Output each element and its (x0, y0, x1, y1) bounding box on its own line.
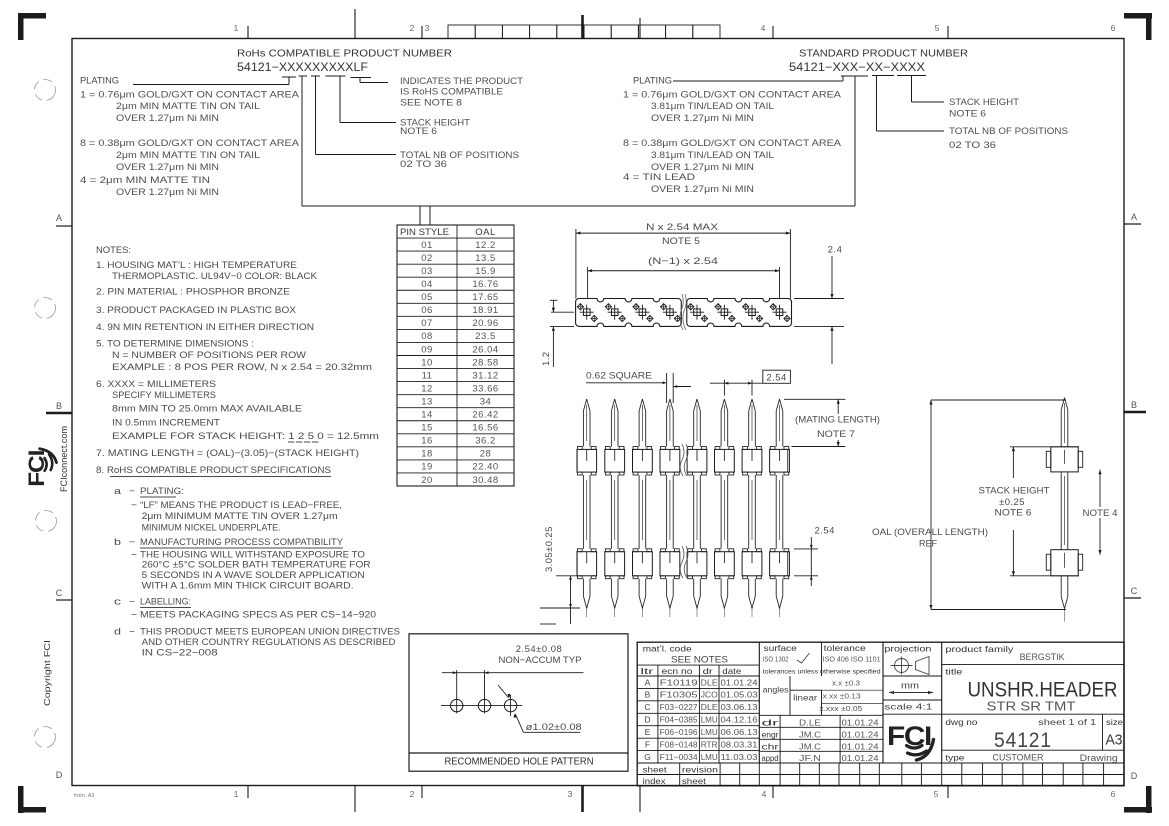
svg-text:15.9: 15.9 (475, 266, 496, 277)
svg-text:DLE: DLE (701, 677, 718, 687)
svg-text:2μm MIN MATTE TIN ON TAIL: 2μm MIN MATTE TIN ON TAIL (116, 150, 260, 161)
svg-text:C: C (1131, 586, 1138, 596)
svg-text:28: 28 (480, 449, 492, 460)
svg-text:1. HOUSING MAT’L : HIGH T: 1. HOUSING MAT’L : HIGH TEMPERATURE (96, 260, 297, 271)
svg-text:engr: engr (762, 730, 779, 739)
svg-text:1: 1 (234, 23, 239, 33)
svg-text:UNSHR.HEADER: UNSHR.HEADER (968, 679, 1118, 702)
svg-text:A: A (645, 677, 651, 687)
svg-text:A: A (1131, 212, 1137, 222)
svg-text:title: title (945, 667, 962, 677)
svg-text:REF: REF (919, 539, 937, 550)
svg-text:2. PIN MATERIAL : PHOSPHOR: 2. PIN MATERIAL : PHOSPHOR BRONZE (96, 287, 290, 298)
svg-text:1 = 0.76μm GOLD/GXT ON CO: 1 = 0.76μm GOLD/GXT ON CONTACT AREA (80, 90, 300, 101)
svg-text:TOTAL NB OF POSITIONS: TOTAL NB OF POSITIONS (949, 126, 1068, 137)
svg-text:NOTE 6: NOTE 6 (949, 109, 986, 120)
svg-text:17.65: 17.65 (472, 292, 498, 303)
svg-text:F08−0148: F08−0148 (660, 739, 698, 749)
svg-text:5. TO DETERMINE DIMENSIONS: 5. TO DETERMINE DIMENSIONS : (96, 339, 254, 350)
svg-text:dr: dr (703, 666, 713, 676)
svg-text:x.xx ±0.13: x.xx ±0.13 (823, 694, 861, 701)
svg-text:11: 11 (422, 370, 433, 381)
svg-text:±0.25: ±0.25 (999, 497, 1025, 508)
svg-text:STR SR TMT: STR SR TMT (987, 700, 1076, 714)
svg-text:01.05.03: 01.05.03 (721, 690, 758, 700)
svg-text:LMU: LMU (701, 727, 718, 737)
svg-text:5: 5 (934, 789, 939, 799)
svg-text:tolerances unless otherwise: tolerances unless otherwise specified (763, 669, 881, 676)
svg-text:ø1.02±0.08: ø1.02±0.08 (526, 722, 582, 733)
svg-text:26.04: 26.04 (472, 344, 498, 355)
svg-text:4: 4 (762, 789, 767, 799)
svg-text:01.01.24: 01.01.24 (842, 753, 879, 763)
svg-text:JM.C: JM.C (799, 729, 821, 739)
svg-text:THIS PRODUCT MEETS EUROPEAN: THIS PRODUCT MEETS EUROPEAN UNION DIRECT… (140, 627, 400, 638)
svg-text:RTR: RTR (701, 739, 718, 749)
svg-text:EXAMPLE FOR STACK HEIGHT: 1 2: EXAMPLE FOR STACK HEIGHT: 1 2 5 0 = 12.5… (112, 431, 379, 442)
svg-text:54121−XXX−XX−XXXX: 54121−XXX−XX−XXXX (789, 62, 925, 74)
svg-text:NON−ACCUM TYP: NON−ACCUM TYP (499, 655, 582, 666)
svg-text:x.xxx ±0.05: x.xxx ±0.05 (819, 706, 862, 713)
svg-text:15: 15 (421, 423, 433, 434)
svg-text:6. XXXX = MILLIMETERS: 6. XXXX = MILLIMETERS (96, 379, 216, 390)
svg-text:A: A (56, 213, 62, 223)
svg-text:D: D (644, 715, 650, 725)
svg-text:C: C (56, 588, 63, 598)
svg-text:8mm MIN TO 25.0mm MAX AVA: 8mm MIN TO 25.0mm MAX AVAILABLE (112, 404, 302, 415)
svg-text:NOTE 4: NOTE 4 (1083, 508, 1118, 519)
svg-text:ecn no: ecn no (662, 666, 693, 676)
svg-text:JF.N: JF.N (799, 753, 821, 763)
svg-text:OVER 1.27μm Ni MIN: OVER 1.27μm Ni MIN (651, 184, 754, 195)
svg-text:(N−1) x 2.54: (N−1) x 2.54 (648, 256, 718, 267)
svg-text:54121: 54121 (994, 729, 1052, 752)
svg-text:angles: angles (763, 685, 789, 695)
svg-text:A3: A3 (1106, 732, 1123, 749)
svg-text:01.01.24: 01.01.24 (842, 729, 879, 739)
svg-text:04.12.16: 04.12.16 (721, 715, 758, 725)
svg-text:2.54: 2.54 (814, 526, 835, 537)
svg-text:−: − (129, 537, 135, 548)
svg-text:scale 4:1: scale 4:1 (884, 702, 932, 712)
svg-text:PIN STYLE: PIN STYLE (400, 227, 449, 238)
svg-text:3: 3 (568, 789, 573, 799)
svg-text:14: 14 (421, 410, 433, 421)
svg-text:18.91: 18.91 (472, 305, 498, 316)
svg-text:−: − (129, 486, 135, 497)
svg-text:05: 05 (421, 292, 433, 303)
svg-text:2: 2 (410, 789, 415, 799)
svg-text:11.03.03: 11.03.03 (721, 752, 758, 762)
svg-text:INDICATES THE PRODUCT: INDICATES THE PRODUCT (400, 76, 523, 87)
svg-text:8. RoHS COMPATIBLE PRODUCT: 8. RoHS COMPATIBLE PRODUCT SPECIFICATION… (96, 465, 331, 476)
svg-text:31.12: 31.12 (472, 370, 498, 381)
svg-text:20.96: 20.96 (472, 318, 498, 329)
svg-text:2.4: 2.4 (828, 245, 843, 256)
svg-text:RECOMMENDED HOLE PATTERN: RECOMMENDED HOLE PATTERN (445, 756, 594, 768)
svg-text:b: b (114, 537, 121, 548)
svg-text:N = NUMBER OF POSITIONS P: N = NUMBER OF POSITIONS PER ROW (112, 350, 306, 361)
svg-text:01.01.24: 01.01.24 (842, 741, 879, 751)
svg-text:MANUFACTURING PROCESS COMPAT: MANUFACTURING PROCESS COMPATIBILITY (140, 537, 344, 548)
svg-text:19: 19 (421, 462, 433, 473)
svg-text:LMU: LMU (701, 752, 718, 762)
svg-text:sheet: sheet (682, 776, 707, 786)
svg-text:1.2: 1.2 (541, 351, 552, 366)
svg-text:NOTES:: NOTES: (96, 245, 131, 256)
svg-text:16: 16 (421, 436, 433, 447)
svg-text:F10305: F10305 (660, 690, 698, 700)
svg-text:D.LE: D.LE (799, 717, 821, 727)
svg-text:12: 12 (421, 383, 433, 394)
svg-text:23.5: 23.5 (475, 331, 496, 342)
svg-text:ltr: ltr (641, 666, 654, 676)
svg-text:22.40: 22.40 (472, 462, 498, 473)
svg-text:Copyright FCI: Copyright FCI (42, 640, 52, 706)
svg-text:03: 03 (421, 266, 433, 277)
svg-text:3.05±0.25: 3.05±0.25 (544, 526, 555, 572)
svg-text:PLATING: PLATING (633, 76, 672, 87)
svg-text:ISO 406 ISO 1101: ISO 406 ISO 1101 (823, 657, 881, 664)
svg-text:2μm MINIMUM MATTE TIN OVER: 2μm MINIMUM MATTE TIN OVER 1.27μm (142, 511, 338, 522)
svg-text:index: index (643, 776, 667, 786)
svg-text:SEE NOTES: SEE NOTES (671, 655, 728, 666)
svg-text:(MATING LENGTH): (MATING LENGTH) (795, 415, 880, 426)
svg-text:01: 01 (421, 240, 433, 251)
svg-text:0.62 SQUARE: 0.62 SQUARE (586, 371, 652, 382)
svg-text:NOTE 7: NOTE 7 (817, 429, 855, 440)
svg-text:7. MATING LENGTH = (OAL)−(: 7. MATING LENGTH = (OAL)−(3.05)−(STACK H… (96, 448, 359, 459)
svg-text:F04−0385: F04−0385 (660, 715, 698, 725)
svg-text:8 = 0.38μm GOLD/GXT ON CO: 8 = 0.38μm GOLD/GXT ON CONTACT AREA (623, 138, 842, 149)
svg-text:Drawing: Drawing (1080, 753, 1118, 763)
svg-text:FCIconnect.com: FCIconnect.com (59, 426, 70, 492)
svg-text:10: 10 (421, 357, 433, 368)
svg-text:form. A3: form. A3 (74, 793, 94, 799)
svg-text:3: 3 (425, 23, 430, 33)
svg-text:PLATING: PLATING (80, 76, 119, 87)
svg-text:d: d (114, 627, 121, 638)
svg-text:260°C ±5°C SOLDER BATH TEM: 260°C ±5°C SOLDER BATH TEMPERATURE FOR (142, 560, 371, 571)
svg-text:5: 5 (935, 23, 940, 33)
svg-text:dwg no: dwg no (945, 717, 977, 727)
svg-text:STACK HEIGHT: STACK HEIGHT (979, 486, 1050, 497)
svg-text:−: − (129, 597, 135, 608)
svg-text:IN 0.5mm INCREMENT: IN 0.5mm INCREMENT (112, 418, 220, 429)
svg-text:2.54: 2.54 (766, 373, 787, 384)
svg-text:13: 13 (421, 396, 433, 407)
svg-text:mat’l. code: mat’l. code (643, 644, 692, 654)
svg-text:C: C (644, 702, 650, 712)
svg-text:3. PRODUCT PACKAGED IN PLA: 3. PRODUCT PACKAGED IN PLASTIC BOX (96, 305, 297, 316)
svg-text:04: 04 (421, 279, 433, 290)
svg-text:16.76: 16.76 (472, 279, 498, 290)
svg-text:2.54±0.08: 2.54±0.08 (516, 644, 563, 655)
svg-text:4 = 2μm MIN MATTE TIN: 4 = 2μm MIN MATTE TIN (80, 175, 210, 186)
svg-text:D: D (56, 770, 63, 780)
svg-text:02 TO 36: 02 TO 36 (949, 140, 996, 151)
svg-text:SEE NOTE 8: SEE NOTE 8 (400, 98, 462, 109)
svg-text:−: − (129, 627, 135, 638)
svg-text:STANDARD PRODUCT NUMBER: STANDARD PRODUCT NUMBER (799, 48, 968, 60)
svg-text:OVER 1.27μm Ni MIN: OVER 1.27μm Ni MIN (116, 187, 219, 198)
svg-text:LABELLING:: LABELLING: (140, 597, 191, 608)
svg-text:BERGSTIK: BERGSTIK (1020, 652, 1065, 662)
svg-text:54121−XXXXXXXXXLF: 54121−XXXXXXXXXLF (237, 62, 368, 74)
svg-text:03.06.13: 03.06.13 (721, 702, 758, 712)
svg-text:6: 6 (1111, 789, 1116, 799)
svg-text:WITH A 1.6mm MIN THICK CI: WITH A 1.6mm MIN THICK CIRCUIT BOARD. (142, 581, 354, 592)
svg-text:sheet 1 of 1: sheet 1 of 1 (1038, 717, 1096, 727)
svg-text:DLE: DLE (701, 702, 718, 712)
svg-text:a: a (114, 486, 122, 497)
svg-text:28.58: 28.58 (472, 357, 498, 368)
svg-text:OVER 1.27μm Ni MIN: OVER 1.27μm Ni MIN (651, 113, 754, 124)
svg-text:5 SECONDS IN A WAVE SOLDE: 5 SECONDS IN A WAVE SOLDER APPLICATION (142, 570, 365, 581)
svg-text:PLATING:: PLATING: (140, 486, 184, 497)
svg-text:surface: surface (764, 643, 797, 653)
svg-text:appd: appd (762, 754, 779, 763)
svg-text:18: 18 (421, 449, 433, 460)
svg-text:4. 9N MIN RETENTION IN EI: 4. 9N MIN RETENTION IN EITHER DIRECTION (96, 322, 314, 333)
svg-text:F: F (645, 739, 650, 749)
svg-text:06.06.13: 06.06.13 (721, 727, 758, 737)
svg-text:1 = 0.76μm GOLD/GXT ON CO: 1 = 0.76μm GOLD/GXT ON CONTACT AREA (623, 90, 842, 101)
svg-text:tolerance: tolerance (824, 643, 866, 653)
svg-text:sheet: sheet (643, 765, 668, 775)
svg-text:OVER 1.27μm Ni MIN: OVER 1.27μm Ni MIN (116, 162, 219, 173)
svg-text:6: 6 (1111, 23, 1116, 33)
svg-text:NOTE 6: NOTE 6 (995, 508, 1032, 519)
svg-text:SPECIFY MILLIMETERS: SPECIFY MILLIMETERS (112, 390, 216, 401)
svg-text:G: G (644, 752, 651, 762)
svg-text:08: 08 (421, 331, 433, 342)
svg-text:02 TO 36: 02 TO 36 (400, 159, 447, 170)
svg-text:chr: chr (762, 742, 779, 751)
svg-text:08.03.31: 08.03.31 (721, 739, 758, 749)
svg-text:revision: revision (682, 765, 718, 775)
svg-text:CUSTOMER: CUSTOMER (993, 753, 1044, 763)
svg-text:AND OTHER COUNTRY REGULATIO: AND OTHER COUNTRY REGULATIONS AS DESCRIB… (142, 637, 396, 648)
svg-text:16.56: 16.56 (472, 423, 498, 434)
svg-text:−: − (131, 610, 137, 621)
svg-text:OVER 1.27μm Ni MIN: OVER 1.27μm Ni MIN (116, 113, 219, 124)
svg-text:dr: dr (762, 718, 780, 727)
svg-text:B: B (56, 401, 62, 411)
svg-text:mm: mm (901, 681, 919, 691)
svg-text:N x 2.54 MAX: N x 2.54 MAX (646, 222, 719, 233)
svg-text:NOTE 5: NOTE 5 (662, 236, 700, 247)
svg-text:OAL: OAL (475, 227, 496, 238)
svg-text:product family: product family (945, 644, 1014, 654)
svg-text:IS RoHS COMPATIBLE: IS RoHS COMPATIBLE (400, 87, 503, 98)
svg-text:MEETS PACKAGING SPECS AS P: MEETS PACKAGING SPECS AS PER CS−14−920 (140, 610, 376, 621)
svg-text:−: − (131, 550, 137, 561)
svg-text:4: 4 (761, 23, 766, 33)
svg-text:−: − (131, 500, 137, 511)
svg-text:D: D (1131, 771, 1138, 781)
svg-text:NOTE 6: NOTE 6 (400, 126, 437, 137)
svg-text:8 = 0.38μm GOLD/GXT ON CO: 8 = 0.38μm GOLD/GXT ON CONTACT AREA (80, 138, 300, 149)
svg-text:02: 02 (421, 253, 433, 264)
svg-text:JM.C: JM.C (799, 741, 821, 751)
svg-text:2μm MIN MATTE TIN ON TAIL: 2μm MIN MATTE TIN ON TAIL (116, 101, 260, 112)
svg-text:3.81μm TIN/LEAD ON TAIL: 3.81μm TIN/LEAD ON TAIL (651, 101, 774, 112)
svg-text:B: B (1131, 400, 1137, 410)
svg-text:THERMOPLASTIC. UL94V−0 COLOR: THERMOPLASTIC. UL94V−0 COLOR: BLACK (112, 271, 318, 282)
svg-text:F03−0227: F03−0227 (660, 702, 698, 712)
svg-text:30.48: 30.48 (472, 475, 498, 486)
svg-text:projection: projection (884, 644, 931, 654)
svg-text:size: size (1106, 717, 1123, 727)
svg-text:linear: linear (793, 693, 817, 703)
svg-text:34: 34 (480, 396, 492, 407)
svg-text:2: 2 (410, 23, 415, 33)
svg-text:01.01.24: 01.01.24 (721, 677, 758, 687)
svg-text:LMU: LMU (701, 715, 718, 725)
svg-text:RoHs COMPATIBLE PRODUCT NUM: RoHs COMPATIBLE PRODUCT NUMBER (237, 48, 452, 60)
svg-text:type: type (945, 753, 964, 763)
svg-text:c: c (114, 597, 121, 608)
svg-text:09: 09 (421, 344, 433, 355)
svg-text:IN CS−22−008: IN CS−22−008 (142, 648, 218, 659)
svg-text:3.81μm TIN/LEAD ON TAIL: 3.81μm TIN/LEAD ON TAIL (651, 150, 774, 161)
svg-text:1: 1 (234, 789, 239, 799)
svg-text:12.2: 12.2 (475, 240, 496, 251)
svg-text:4 = TIN LEAD: 4 = TIN LEAD (623, 172, 695, 183)
svg-text:STACK HEIGHT: STACK HEIGHT (949, 97, 1019, 108)
svg-text:OAL (OVERALL LENGTH): OAL (OVERALL LENGTH) (872, 527, 988, 538)
svg-text:EXAMPLE : 8 POS PER ROW, N x 2: EXAMPLE : 8 POS PER ROW, N x 2.54 = 20.3… (112, 362, 372, 373)
svg-text:B: B (645, 690, 651, 700)
svg-text:33.66: 33.66 (472, 383, 498, 394)
svg-text:13.5: 13.5 (475, 253, 496, 264)
svg-text:F11−0034: F11−0034 (660, 752, 698, 762)
svg-text:x.x ±0.3: x.x ±0.3 (832, 681, 860, 688)
svg-text:06: 06 (421, 305, 433, 316)
svg-text:“LF” MEANS THE PRODUCT IS: “LF” MEANS THE PRODUCT IS LEAD−FREE, (140, 500, 342, 511)
svg-text:date: date (722, 666, 741, 676)
svg-text:MINIMUM NICKEL UNDERPLATE.: MINIMUM NICKEL UNDERPLATE. (142, 523, 281, 534)
svg-text:F10119: F10119 (660, 677, 698, 687)
svg-text:07: 07 (421, 318, 433, 329)
svg-text:01.01.24: 01.01.24 (842, 717, 879, 727)
svg-text:20: 20 (421, 475, 433, 486)
svg-text:26.42: 26.42 (472, 410, 498, 421)
svg-text:JCO: JCO (701, 690, 718, 700)
svg-text:E: E (645, 727, 651, 737)
svg-text:36.2: 36.2 (475, 436, 496, 447)
svg-text:ISO 1302: ISO 1302 (763, 657, 789, 664)
svg-text:F06−0196: F06−0196 (660, 727, 698, 737)
